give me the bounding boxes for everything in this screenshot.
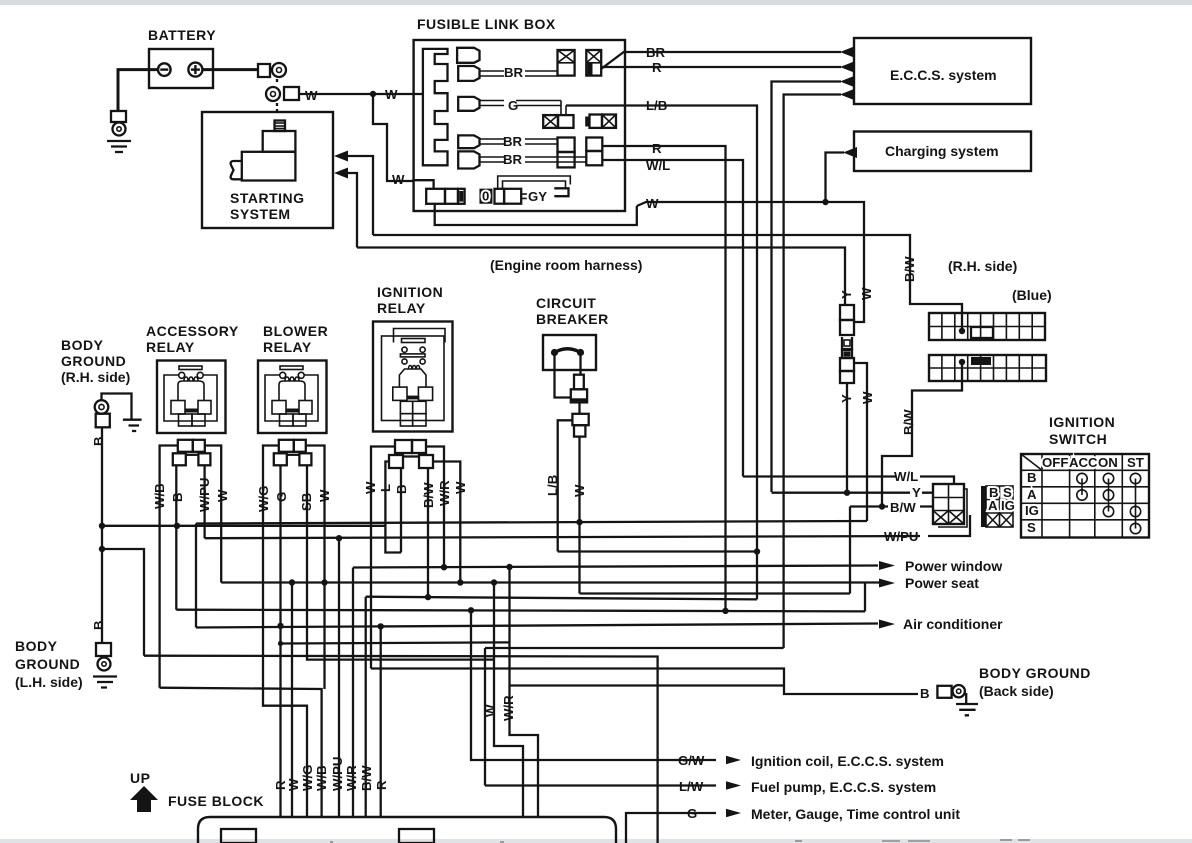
svg-text:W/R: W/R	[344, 765, 359, 791]
svg-text:Y: Y	[912, 485, 921, 500]
svg-text:R: R	[652, 141, 662, 156]
svg-text:SYSTEM: SYSTEM	[230, 206, 291, 222]
svg-text:Meter, Gauge, Time control uni: Meter, Gauge, Time control unit	[751, 806, 960, 822]
svg-text:B: B	[91, 436, 106, 446]
svg-text:ACCESSORY: ACCESSORY	[146, 323, 239, 339]
svg-text:B: B	[170, 492, 185, 502]
svg-text:A: A	[988, 498, 998, 513]
svg-text:RELAY: RELAY	[377, 300, 426, 316]
svg-text:A: A	[1027, 487, 1037, 502]
svg-text:STARTING: STARTING	[230, 190, 305, 206]
svg-text:W/PU: W/PU	[330, 757, 345, 791]
svg-text:(R.H. side): (R.H. side)	[948, 258, 1017, 274]
svg-text:FUSE BLOCK: FUSE BLOCK	[168, 793, 264, 809]
svg-text:BR: BR	[504, 65, 524, 80]
svg-text:IGNITION: IGNITION	[377, 284, 443, 300]
svg-text:(Back side): (Back side)	[979, 683, 1054, 699]
svg-text:IG: IG	[1025, 503, 1039, 518]
svg-text:BODY GROUND: BODY GROUND	[979, 665, 1091, 681]
svg-text:W: W	[215, 489, 230, 502]
svg-text:(L.H. side): (L.H. side)	[15, 674, 83, 690]
svg-text:B: B	[1027, 470, 1037, 485]
svg-text:W: W	[859, 287, 874, 300]
svg-text:Charging system: Charging system	[885, 143, 999, 159]
svg-text:RELAY: RELAY	[146, 339, 195, 355]
svg-text:BR: BR	[503, 134, 523, 149]
svg-text:BREAKER: BREAKER	[536, 311, 609, 327]
svg-text:B/W: B/W	[890, 500, 916, 515]
svg-text:BODY: BODY	[61, 337, 104, 353]
svg-text:Ignition coil, E.C.C.S. system: Ignition coil, E.C.C.S. system	[751, 753, 944, 769]
svg-text:W: W	[305, 88, 318, 103]
svg-text:GROUND: GROUND	[15, 656, 80, 672]
svg-text:Y: Y	[839, 290, 854, 299]
svg-text:BATTERY: BATTERY	[148, 27, 216, 43]
svg-text:BLOWER: BLOWER	[263, 323, 328, 339]
svg-text:CIRCUIT: CIRCUIT	[536, 295, 596, 311]
svg-text:Fuel pump, E.C.C.S. system: Fuel pump, E.C.C.S. system	[751, 779, 936, 795]
svg-text:SWITCH: SWITCH	[1049, 431, 1107, 447]
svg-text:IG: IG	[1001, 498, 1015, 513]
svg-text:(Blue): (Blue)	[1012, 287, 1052, 303]
svg-text:Air conditioner: Air conditioner	[903, 616, 1003, 632]
svg-text:OFF: OFF	[1042, 455, 1068, 470]
svg-text:UP: UP	[130, 770, 150, 786]
svg-text:W: W	[392, 172, 405, 187]
svg-text:W/L: W/L	[894, 469, 918, 484]
svg-text:GY: GY	[528, 189, 547, 204]
svg-text:FUSIBLE LINK BOX: FUSIBLE LINK BOX	[417, 16, 556, 32]
svg-text:0: 0	[482, 189, 489, 204]
svg-text:BODY: BODY	[15, 638, 58, 654]
svg-text:B: B	[91, 620, 106, 630]
svg-text:ON: ON	[1098, 455, 1118, 470]
svg-text:(Engine room harness): (Engine room harness)	[490, 257, 642, 273]
svg-text:E.C.C.S. system: E.C.C.S. system	[890, 67, 997, 83]
svg-text:B/W: B/W	[901, 409, 916, 435]
svg-text:(R.H. side): (R.H. side)	[61, 369, 130, 385]
svg-text:ACC: ACC	[1069, 455, 1098, 470]
svg-text:IGNITION: IGNITION	[1049, 414, 1115, 430]
svg-text:RELAY: RELAY	[263, 339, 312, 355]
svg-text:Power seat: Power seat	[905, 575, 979, 591]
svg-text:ST: ST	[1127, 455, 1144, 470]
svg-text:W: W	[286, 778, 301, 791]
svg-text:BR: BR	[503, 152, 523, 167]
svg-text:W: W	[646, 196, 659, 211]
svg-text:S: S	[1027, 520, 1036, 535]
svg-text:GROUND: GROUND	[61, 353, 126, 369]
svg-text:Power window: Power window	[905, 558, 1002, 574]
svg-text:B: B	[920, 686, 930, 701]
